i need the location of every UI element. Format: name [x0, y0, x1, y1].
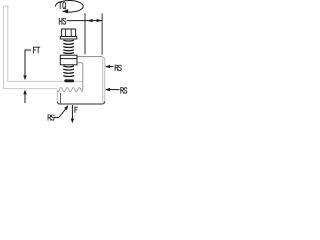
HS extension line right: [101, 13, 103, 54]
clamp top edge: [77, 56, 102, 58]
clamp body white fill: [57, 57, 105, 105]
label RS bottom left: [48, 115, 54, 120]
clamp outer right edge: [103, 57, 105, 101]
FT up arrowhead: [23, 90, 26, 95]
HS extension line left: [84, 13, 86, 54]
RS lower leader: [106, 89, 120, 91]
RS upper leader: [106, 66, 114, 68]
clamp inner right edge: [101, 57, 104, 103]
HS arrowhead left: [88, 19, 93, 22]
torque arrowhead: [62, 9, 69, 13]
RS upper arrowhead: [105, 65, 110, 68]
jaw insert edge line: [60, 93, 62, 104]
RS bottom arrowhead: [64, 105, 68, 110]
F down arrowhead: [71, 119, 74, 124]
clamp bottom edge (dark): [57, 101, 105, 104]
background: [0, 0, 130, 130]
FT lower stem: [24, 94, 26, 103]
label TQ: [59, 2, 66, 9]
HS arrowhead right: [97, 19, 102, 22]
HS leader / dimension line: [67, 20, 102, 22]
torque arc arrow: [55, 1, 83, 13]
beam flange top surface: [8, 80, 83, 82]
hex head facet lines: [65, 29, 67, 36]
label RS right lower: [121, 88, 127, 94]
label F: [75, 107, 78, 113]
clamp serrated jaw teeth (wavy line): [57, 88, 83, 92]
label HS: [59, 18, 65, 24]
beam flange bottom surface: [4, 88, 58, 90]
label FT: [33, 47, 39, 53]
FT down arrowhead: [23, 75, 26, 80]
clamp left jaw edge: [56, 90, 58, 102]
RS lower arrowhead: [105, 88, 110, 91]
F force line: [71, 105, 73, 119]
plate washer split line: [60, 58, 77, 60]
beam web (light gray angle vertical leg): [4, 6, 8, 89]
FT leader bracket: [25, 50, 31, 76]
label RS right upper: [115, 65, 121, 71]
bolt tip pressing on flange: [64, 79, 74, 82]
RS bottom leader: [54, 107, 68, 118]
washer under hex head: [60, 37, 77, 40]
clamp throat inner edge with fillet: [77, 63, 83, 91]
bolt threads above plate: [63, 40, 74, 53]
bolt pad plate on clamp top: [60, 55, 77, 65]
bolt hex head: [62, 29, 76, 37]
bolt threads below plate: [63, 66, 74, 77]
